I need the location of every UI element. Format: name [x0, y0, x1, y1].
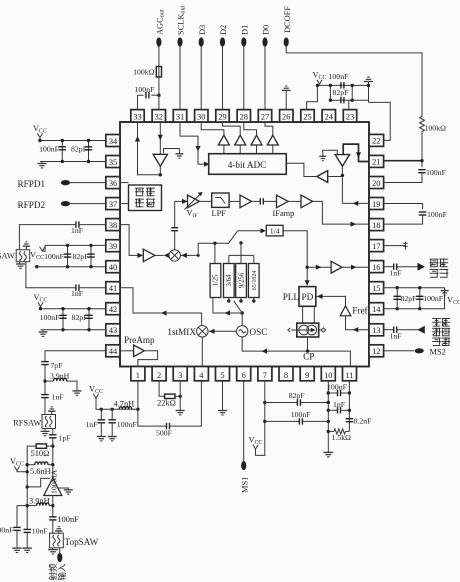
- node rail 3.9nH: [26, 504, 29, 507]
- wire amp2 to mixer: [155, 254, 164, 256]
- terminal D3: [199, 37, 204, 46]
- wire chain3: [44, 398, 46, 415]
- svg-text:18: 18: [372, 221, 380, 230]
- transistor amplifier (RF AMP 100): [44, 478, 62, 496]
- amp Fref buffer: [340, 306, 351, 316]
- wire DCOFF to right 100k: [286, 46, 422, 117]
- svg-text:500F: 500F: [156, 428, 173, 437]
- svg-text:1nF: 1nF: [52, 393, 65, 402]
- pin 15: [369, 282, 384, 294]
- inductor 4.7nH: [119, 407, 131, 410]
- ground above RFSAW: [48, 407, 56, 411]
- capacitor 100nF (left bottom): [13, 527, 20, 530]
- wire pin32 AGC vertical: [158, 46, 160, 110]
- wire 1nF stub: [100, 409, 102, 420]
- svg-text:42: 42: [109, 305, 117, 314]
- wire rail pin11: [348, 381, 350, 431]
- svg-text:1nF: 1nF: [333, 400, 346, 409]
- svg-text:82pF: 82pF: [289, 391, 306, 400]
- svg-text:1/25: 1/25: [213, 274, 220, 287]
- capacitor 100nF (pin19-18): [419, 212, 426, 215]
- node: [418, 307, 421, 310]
- svg-text:1.5kΩ: 1.5kΩ: [332, 433, 352, 442]
- svg-text:3/64: 3/64: [226, 274, 233, 287]
- wire chain2: [44, 381, 46, 395]
- inductor 3.9nH (lower): [37, 503, 50, 506]
- node rail34 left: [38, 139, 41, 142]
- wire loop right stub: [351, 85, 353, 100]
- wire loop to pin18: [384, 215, 423, 224]
- terminal clock output: [418, 263, 426, 271]
- capacitor 100nF (pin1 net): [109, 420, 116, 423]
- arrow into ADC: [204, 162, 210, 167]
- svg-text:37: 37: [109, 200, 117, 209]
- pin 2: [152, 367, 166, 381]
- node 82pF line: [263, 401, 266, 404]
- wire pin23 stub: [348, 100, 350, 109]
- wire stub: [228, 298, 230, 302]
- capacitor 1nF (pin41): [76, 285, 79, 291]
- svg-text:5: 5: [220, 371, 224, 380]
- wire PD-CP a: [302, 306, 304, 323]
- pin 4: [194, 367, 208, 381]
- node 3/64 bottom: [227, 299, 230, 302]
- arrow into PD: [305, 280, 310, 286]
- node 1nF tap: [100, 408, 103, 411]
- wire SAW out to pin41 1nF: [26, 262, 76, 288]
- wire to ref terminal: [397, 329, 425, 331]
- wire top rail: [317, 84, 368, 86]
- wire pin35 rail: [40, 161, 106, 163]
- node 65/1024 bottom: [252, 299, 255, 302]
- divider 3/64: [224, 264, 235, 298]
- block power control (dianyuan kongzhi): [129, 185, 162, 211]
- capacitor 7pF: [41, 362, 48, 365]
- wire RFSAW to ground: [44, 429, 46, 431]
- terminal MS2: [415, 348, 424, 353]
- pin 30: [195, 110, 208, 122]
- buffer amp ADC bit 1: [251, 135, 262, 145]
- ground (pins15/14): [441, 291, 449, 295]
- pin 29: [216, 110, 229, 122]
- svg-text:DCOFF: DCOFF: [283, 6, 292, 33]
- svg-text:12: 12: [372, 347, 380, 356]
- node: [61, 139, 64, 142]
- pin 6: [237, 367, 251, 381]
- arrow into VIF: [182, 199, 188, 204]
- wire pin32 in: [159, 122, 161, 154]
- pin 36: [106, 177, 120, 189]
- divider 9/256: [236, 264, 247, 298]
- wire VIF node down: [174, 201, 176, 227]
- pin 27: [258, 110, 271, 122]
- ground (pin3): [176, 411, 185, 415]
- svg-text:1nF: 1nF: [85, 420, 98, 429]
- buffer amp ADC bit 3: [218, 135, 229, 145]
- node: [348, 409, 351, 412]
- capacitor 1nF (pin13): [394, 327, 397, 333]
- node switch contact: [239, 241, 242, 244]
- wire divider rail1: [198, 243, 228, 255]
- pin 33: [131, 110, 144, 122]
- ground above SAW: [23, 242, 31, 246]
- node loop left top: [329, 84, 332, 87]
- pin 37: [106, 198, 120, 210]
- wire 100nF top a: [328, 392, 337, 394]
- wire 82pF line a: [265, 402, 298, 404]
- wire pin42 rail: [41, 307, 106, 309]
- wire 82pF branch: [88, 141, 90, 162]
- pin 22: [369, 134, 384, 146]
- terminal D0: [262, 37, 267, 46]
- svg-text:1stMIX: 1stMIX: [167, 327, 196, 337]
- node top rail left: [316, 84, 319, 87]
- arrow up pin33: [135, 136, 140, 142]
- ground (left bottom2): [22, 548, 32, 552]
- node: [61, 160, 64, 163]
- pin 40: [106, 261, 120, 273]
- wire 9/256 stub: [240, 243, 242, 264]
- svg-text:RFPD1: RFPD1: [18, 179, 46, 189]
- svg-text:RFSAW: RFSAW: [13, 419, 41, 428]
- wire 100nF branch: [61, 141, 63, 162]
- wire amp gnd: [58, 488, 69, 490]
- resistor 1.5k&#937;: [334, 429, 346, 434]
- svg-text:RFPD2: RFPD2: [18, 200, 46, 210]
- svg-text:100nF: 100nF: [329, 72, 350, 81]
- ground above pin 26: [282, 86, 291, 90]
- wire pin38 interior: [120, 225, 139, 256]
- wire PD-CP b: [313, 306, 315, 323]
- node: [66, 244, 69, 247]
- svg-text:82pF: 82pF: [333, 88, 350, 97]
- wire 82pF branch saw: [90, 245, 92, 266]
- capacitor 100nF (pins10/11): [338, 390, 341, 396]
- svg-text:9/256: 9/256: [238, 272, 245, 288]
- svg-text:22kΩ: 22kΩ: [157, 398, 176, 407]
- wire 4.7nH rail: [96, 398, 138, 409]
- capacitor 82pF (pins42/43): [85, 315, 92, 318]
- wire mixer1 to pin41: [120, 288, 202, 326]
- amp pin16 buffer: [331, 261, 342, 273]
- wire SAW to ground: [18, 262, 20, 264]
- capacitor 100nF (pin21 node): [418, 170, 425, 173]
- wire IF out to pin18: [313, 201, 369, 224]
- svg-text:26: 26: [282, 112, 290, 121]
- svg-text:40: 40: [109, 263, 117, 272]
- capacitor 8.2nF: [346, 419, 353, 422]
- wire to ground2: [26, 532, 28, 548]
- wire stub: [240, 298, 242, 302]
- ground below TopSAW: [48, 550, 58, 554]
- wire CP line: [242, 337, 350, 367]
- svg-text:100nF: 100nF: [57, 515, 79, 524]
- wire pin6 to MS1: [243, 381, 245, 461]
- svg-text:1: 1: [136, 371, 140, 380]
- terminal RFPD1: [61, 180, 70, 185]
- svg-text:8: 8: [284, 371, 288, 380]
- capacitor coupling (IF): [260, 198, 263, 204]
- wire pin14 out: [384, 288, 445, 309]
- wire pin3 down: [179, 381, 181, 411]
- wire to ground: [41, 162, 43, 164]
- capacitor 100nF (pins42/43): [59, 315, 66, 318]
- svg-text:OSC: OSC: [250, 327, 268, 337]
- pin 28: [237, 110, 250, 122]
- wire Vcc to pin25: [307, 84, 318, 109]
- capacitor 100nF (pins15/14): [416, 296, 423, 299]
- arrow from pin13: [353, 327, 359, 332]
- wire pin22 to top net: [369, 102, 391, 140]
- wire pin5 down: [222, 381, 224, 411]
- charge pump CP: [288, 323, 326, 337]
- svg-text:1nF: 1nF: [390, 269, 403, 278]
- mixer 1stMIX: [197, 326, 209, 338]
- node: [348, 391, 351, 394]
- pin 14: [369, 303, 384, 315]
- capacitor 82pF (pins15/14): [394, 296, 401, 299]
- wire pin38 to 1nF: [79, 224, 106, 226]
- pin 39: [106, 240, 120, 252]
- arrow into amp2: [138, 253, 144, 258]
- ground (pins34/35): [38, 164, 47, 168]
- svg-text:D2: D2: [219, 25, 228, 35]
- amp IF1: [240, 195, 252, 208]
- pin 41: [106, 282, 120, 294]
- wire mixer2 LO: [180, 254, 198, 256]
- wire PreAmp out to pin1: [138, 351, 158, 367]
- wire 5.6nH to chain: [48, 464, 53, 466]
- svg-text:1nF: 1nF: [71, 226, 84, 235]
- wire RFSAW out: [52, 429, 54, 435]
- wire 100nF top b: [341, 392, 350, 394]
- wire OSC to 1/25: [213, 298, 242, 314]
- wire cap to mixer2: [174, 231, 176, 250]
- arrow pin19: [353, 201, 359, 206]
- amp PreAmp: [134, 345, 145, 357]
- node AGC junction: [157, 94, 160, 97]
- pin 20: [369, 177, 384, 189]
- wire VIF to LPF: [199, 200, 211, 202]
- amp AGC detector (left-pointing): [317, 171, 328, 183]
- wire to 3.9nH lower: [27, 505, 36, 507]
- wire 1nF to SAW: [19, 225, 76, 250]
- wire chain6: [51, 520, 53, 533]
- wire pin44 to PreAmp: [120, 350, 134, 352]
- pin 42: [106, 303, 120, 315]
- amp IFamp: [277, 195, 289, 208]
- oscillator OSC: [237, 326, 248, 337]
- svg-text:82pF: 82pF: [73, 252, 90, 261]
- SAW filter RFSAW: [42, 415, 56, 429]
- label dian: [135, 188, 144, 196]
- inductor 3.9nH (upper): [54, 378, 67, 381]
- termination element at pin 17: [403, 242, 407, 250]
- wire 1nF to pin41: [79, 287, 106, 289]
- node amp bias tap: [26, 485, 29, 488]
- wire pin39 rail: [42, 245, 106, 251]
- svg-text:65/1024: 65/1024: [252, 271, 258, 291]
- wire 82pF branch 42: [88, 309, 90, 330]
- pin 18: [369, 219, 384, 231]
- terminal RFPD2: [61, 201, 70, 206]
- wire gnd stub SAW top: [25, 246, 27, 250]
- node 5.6nH right: [51, 463, 54, 466]
- ground (RF amp): [64, 490, 73, 494]
- node loop right top: [351, 84, 354, 87]
- buffer amp ADC bit 0: [267, 135, 278, 145]
- node pin1 rail: [136, 408, 139, 411]
- arrow LO into mixer2: [181, 253, 187, 258]
- capacitor 100nF (SAW net): [64, 254, 71, 257]
- wire 1/25 top stub: [214, 243, 216, 263]
- node: [61, 307, 64, 310]
- ground (pin5): [218, 411, 227, 415]
- wire right node: [368, 82, 370, 103]
- node: [66, 265, 69, 268]
- label shu2: [432, 338, 441, 346]
- ground (100nF pin1): [108, 437, 117, 441]
- svg-text:38: 38: [109, 221, 117, 230]
- wire 100nF gnd: [111, 423, 113, 437]
- wire amp bias: [27, 478, 50, 487]
- wire pin31 to ADC: [180, 122, 205, 164]
- wire buffer3 to ADC: [272, 145, 274, 154]
- wire pin27 D0: [264, 46, 266, 110]
- wire ref node down: [341, 166, 343, 203]
- wire 82pF branch r: [396, 288, 398, 309]
- node: [396, 307, 399, 310]
- amp IF3: [301, 195, 313, 208]
- svg-text:5.6nH: 5.6nH: [30, 467, 51, 476]
- svg-text:11: 11: [345, 371, 353, 380]
- capacitor 1nF (pin16): [394, 264, 397, 270]
- svg-text:1nF: 1nF: [390, 332, 403, 341]
- svg-text:CP: CP: [303, 351, 314, 361]
- block LPF: [212, 193, 229, 207]
- wire pin16 out: [384, 266, 394, 268]
- svg-text:100MA: 100MA: [50, 469, 59, 494]
- op-amp U1 IC body: [120, 122, 369, 367]
- wire rail: [26, 528, 28, 531]
- svg-text:100kΩ: 100kΩ: [425, 124, 447, 133]
- terminal AGCout: [156, 37, 161, 46]
- wire buffer2 to pin: [244, 122, 257, 135]
- svg-text:19: 19: [372, 200, 380, 209]
- node rail1 corner: [197, 254, 200, 257]
- SAW filter TopSAW: [50, 533, 64, 548]
- wire pin15 out: [384, 287, 445, 289]
- svg-text:MS1: MS1: [240, 477, 249, 493]
- wire pin19 loop: [384, 204, 423, 210]
- wire buffer0 to pin: [201, 122, 224, 135]
- svg-text:D1: D1: [240, 25, 249, 35]
- wire 100nF to AGC line: [151, 94, 159, 96]
- wire pin33 to 100nF: [138, 95, 144, 109]
- wire LPF out: [229, 200, 240, 202]
- svg-text:Fref: Fref: [352, 305, 368, 315]
- wire to ground: [42, 330, 44, 332]
- wire gnd stub TopSAW: [58, 531, 60, 533]
- pin 5: [216, 367, 230, 381]
- node loop right bottom: [351, 99, 354, 102]
- wire 65/1024 stub: [253, 255, 255, 263]
- pin 35: [106, 156, 120, 168]
- capacitor 1nF (chain): [41, 395, 48, 398]
- node: [327, 409, 330, 412]
- svg-text:2: 2: [157, 371, 161, 380]
- ground (inverter): [175, 154, 183, 158]
- wire 3.9nH to chain: [49, 505, 53, 507]
- svg-text:1/4: 1/4: [270, 227, 280, 236]
- svg-text:100nF: 100nF: [135, 85, 156, 94]
- wire chain4: [52, 438, 54, 478]
- terminal D1: [241, 37, 246, 46]
- capacitor 82pF (top net): [341, 97, 344, 103]
- wire pin1 down: [137, 381, 139, 409]
- svg-text:32: 32: [155, 112, 163, 121]
- svg-text:8.2nF: 8.2nF: [354, 417, 373, 426]
- svg-text:31: 31: [176, 112, 184, 121]
- arrow into 1/25: [225, 310, 231, 315]
- capacitor 100nF (AGC): [146, 92, 149, 98]
- wire pin34 rail: [40, 138, 106, 141]
- node 1/25 top: [213, 242, 216, 245]
- capacitor 1pF: [49, 435, 56, 438]
- label pin: [432, 328, 441, 337]
- node top rail right: [367, 84, 370, 87]
- svg-text:44: 44: [109, 347, 118, 356]
- capacitor 10nF: [24, 529, 31, 532]
- svg-text:36: 36: [109, 179, 117, 188]
- pin 10: [321, 367, 335, 381]
- pin 43: [106, 324, 120, 336]
- label ji: [432, 318, 441, 327]
- ground (left bottom1): [12, 548, 22, 552]
- wire Vcc to rail: [17, 471, 27, 472]
- ground above TopSAW: [55, 527, 63, 531]
- svg-text:25: 25: [303, 112, 311, 121]
- wire pin2 to 22k: [159, 381, 165, 396]
- wire to pin19: [342, 202, 369, 204]
- block divider 1/4: [266, 225, 283, 236]
- capacitor 100nF (top net): [341, 82, 344, 88]
- terminal reference input: [417, 326, 425, 334]
- wire 1nF a: [328, 409, 337, 411]
- wire ref to pin21: [343, 144, 369, 161]
- wire to pin16 buffer: [307, 266, 331, 268]
- node 3.9nH lower tap: [51, 504, 54, 507]
- svg-text:100nF: 100nF: [44, 252, 65, 261]
- wire inverter out: [159, 166, 161, 175]
- wire 1nF gnd: [100, 423, 102, 437]
- label shi: [430, 259, 439, 267]
- pin 38: [106, 219, 120, 231]
- svg-text:SAW: SAW: [0, 252, 15, 261]
- pin 11: [343, 367, 357, 381]
- ground below RFSAW: [41, 431, 50, 435]
- wire 82pF line b: [300, 402, 329, 404]
- wire 1.5k b: [346, 430, 350, 432]
- svg-text:7: 7: [263, 371, 267, 380]
- svg-text:100nF: 100nF: [0, 525, 14, 534]
- wire pin36 stub: [120, 182, 129, 184]
- wire pin12 out: [384, 350, 414, 352]
- wire RFPD1 to pin36: [70, 182, 106, 184]
- switch S1 (divider select): [228, 231, 238, 244]
- amp 2nd mix: [143, 249, 155, 262]
- pin 17: [369, 240, 384, 252]
